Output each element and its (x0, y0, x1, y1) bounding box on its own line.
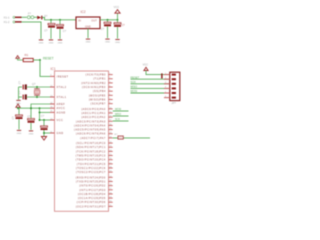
pin XTAL2 (50, 87, 55, 88)
svg-text:RESET: RESET (43, 56, 54, 60)
pin (SS)PB4 (109, 90, 113, 93)
pin (MISO)PB6 (109, 98, 113, 101)
svg-text:GND: GND (115, 42, 120, 44)
capacitor C8 (28, 119, 35, 121)
pin /RESET (50, 76, 55, 77)
svg-text:(INT2/AIN0)PB2: (INT2/AIN0)PB2 (81, 82, 106, 85)
wire IC2 out (100, 19, 118, 21)
ground C1 (49, 39, 53, 40)
pin (SCK)PB7 (109, 102, 113, 105)
pin (TDI/PCINT21)PC5 (109, 162, 113, 165)
capacitor C1 (50, 20, 52, 24)
pin (RXD/PCINT24)PD0 (109, 176, 113, 179)
svg-text:(TDI/PCINT21)PC5: (TDI/PCINT21)PC5 (77, 163, 106, 166)
wire XTAL2 row right (27, 86, 51, 88)
ground C8 (29, 130, 33, 131)
svg-text:(TXD/PCINT25)PD1: (TXD/PCINT25)PD1 (76, 180, 106, 183)
svg-text:(ADC3/PCINT3)PA3: (ADC3/PCINT3)PA3 (76, 120, 106, 123)
wire SCK stub (113, 120, 129, 122)
pin (ADC5/PCINT05)PA5 (109, 128, 113, 131)
svg-text:2: 2 (109, 77, 110, 79)
svg-text:(TDO/PCINT20)PC4: (TDO/PCINT20)PC4 (76, 159, 106, 162)
pin (MOSI)PB5 (109, 94, 113, 97)
svg-text:AVCC: AVCC (57, 107, 66, 110)
svg-text:GND: GND (39, 42, 44, 44)
pin (ADC0/PC0)PA0 (109, 107, 113, 110)
wire diode to IC2 (42, 18, 76, 20)
pin (INT0/PCI26)PD2 (109, 184, 113, 187)
svg-text:(ADC0/PC0)PA0: (ADC0/PC0)PA0 (81, 108, 106, 111)
pin (TMS/PCINT19)PC3 (109, 154, 113, 157)
svg-text:SCK: SCK (115, 118, 120, 121)
wire R1 to node (33, 59, 40, 61)
svg-text:R1: R1 (25, 53, 29, 57)
supply VCC at R1 (16, 56, 20, 59)
svg-text:GND: GND (49, 42, 54, 44)
svg-text:GND: GND (57, 132, 64, 135)
header pin 5 (172, 92, 176, 94)
wire MOSI stub (113, 110, 129, 112)
svg-text:JP?: JP? (172, 102, 177, 105)
pin (TCK/PCINT18)PC2 (109, 150, 113, 153)
svg-text:35: 35 (109, 128, 111, 130)
svg-text:(SDA/PCINT17)PC1: (SDA/PCINT17)PC1 (76, 146, 106, 149)
ground crystal caps (16, 100, 20, 101)
svg-text:16: 16 (109, 184, 111, 186)
wire VCC row (40, 119, 51, 121)
pin (TOSC1/PCI22)PC6 (109, 167, 113, 170)
wire caps join to ground (18, 87, 20, 100)
wire to /RESET pin (40, 60, 50, 76)
diode D1 (37, 16, 41, 20)
pin (OC1A/PCI29)PD5 (109, 197, 113, 200)
pin XTAL1 (50, 97, 55, 98)
svg-text:(TOSC1/PCI22)PC6: (TOSC1/PCI22)PC6 (76, 167, 106, 170)
junction AVCC (17, 107, 19, 109)
svg-text:(XCK/T0)PB0: (XCK/T0)PB0 (86, 74, 106, 77)
svg-text:15: 15 (109, 180, 111, 182)
svg-text:(ADC2/PC2)PA2: (ADC2/PC2)PA2 (81, 116, 106, 119)
svg-text:(OC1B/PCI28)PD4: (OC1B/PCI28)PD4 (78, 193, 106, 196)
svg-text:MOSI: MOSI (115, 108, 121, 111)
svg-text:XTAL2: XTAL2 (57, 86, 67, 89)
svg-text:(TMS/PCINT19)PC3: (TMS/PCINT19)PC3 (76, 155, 106, 158)
IC2 gnd stub (87, 29, 89, 38)
pin (ADC4/PCINT04)PA4 (109, 124, 113, 127)
svg-text:IN: IN (78, 19, 81, 23)
svg-text:37: 37 (109, 120, 111, 122)
svg-text:VCC: VCC (114, 5, 120, 9)
svg-text:26: 26 (109, 158, 111, 160)
pin (T1)PB1 (109, 77, 113, 80)
connector JP1 (170, 72, 180, 100)
solder jumper SJ1 (118, 136, 123, 139)
pin AGND (50, 112, 55, 113)
svg-text:29: 29 (109, 171, 111, 173)
svg-text:(TCK/PCINT18)PC2: (TCK/PCINT18)PC2 (76, 150, 106, 153)
wire AVCC row (18, 107, 50, 109)
ground C2 (58, 39, 62, 40)
wire AREF row (31, 104, 50, 118)
svg-text:22: 22 (109, 142, 111, 144)
svg-text:GND: GND (85, 24, 91, 28)
svg-text:17: 17 (109, 188, 111, 190)
svg-text:(OC2/PCINT31)PD7: (OC2/PCINT31)PD7 (76, 205, 106, 208)
svg-text:GND: GND (29, 133, 34, 135)
svg-text:GND: GND (17, 133, 22, 135)
pin VCC (50, 120, 55, 121)
pin (TXD/PCINT25)PD1 (109, 180, 113, 183)
svg-text:X1-1: X1-1 (4, 15, 10, 19)
wire MISO stub (113, 115, 129, 117)
capacitor C2 (59, 20, 61, 25)
header pin 4 (172, 87, 176, 89)
junction C4 (117, 19, 119, 21)
wire AGND row (39, 107, 41, 109)
supply VCC top (117, 13, 119, 20)
pin (SCL/PCINT16)PC0 (109, 142, 113, 145)
pin (INT1/PCI27)PD3 (109, 188, 113, 191)
pin (ADC2/PC2)PA2 (109, 116, 113, 119)
svg-text:VCC: VCC (57, 119, 64, 122)
svg-text:34: 34 (109, 132, 111, 134)
wire X1-1 to fuse (22, 16, 27, 18)
svg-text:(MISO)PB6: (MISO)PB6 (89, 98, 106, 101)
svg-text:3: 3 (109, 81, 110, 83)
svg-text:(ADC6/PCINT6)PA6: (ADC6/PCINT6)PA6 (76, 133, 106, 136)
pin (TDO/PCINT20)PC4 (109, 158, 113, 161)
pin (ADC6/PCINT6)PA6 (109, 132, 113, 135)
svg-text:(SS)PB4: (SS)PB4 (93, 90, 106, 93)
svg-text:18: 18 (109, 192, 111, 194)
svg-text:25: 25 (109, 154, 111, 156)
svg-text:1: 1 (109, 73, 110, 75)
svg-text:6: 6 (109, 94, 110, 96)
pin (OC2/PCINT31)PD7 (109, 205, 113, 208)
svg-text:(OC1A/PCI29)PD5: (OC1A/PCI29)PD5 (78, 197, 106, 200)
svg-text:38: 38 (109, 116, 111, 118)
svg-text:36: 36 (109, 124, 111, 126)
svg-text:21: 21 (109, 205, 111, 207)
wire XTAL1 row right (27, 96, 51, 98)
supply VCC mid (16, 104, 20, 107)
pin GND (50, 133, 55, 134)
pin (ADC3/PCINT3)PA3 (109, 120, 113, 123)
svg-text:(MOSI)PB5: (MOSI)PB5 (89, 94, 106, 97)
svg-text:MISO: MISO (115, 113, 121, 116)
pin AVCC (50, 108, 55, 109)
capacitor C9 (43, 120, 45, 126)
capacitor C4 (117, 20, 119, 23)
svg-text:(INT0/PCI26)PD2: (INT0/PCI26)PD2 (79, 185, 106, 188)
svg-text:14: 14 (109, 176, 111, 178)
svg-text:XTAL1: XTAL1 (57, 96, 67, 99)
ground C3 (105, 39, 109, 40)
svg-text:4: 4 (109, 85, 110, 87)
junction RESET (39, 59, 41, 61)
pin (XCK/T0)PB0 (109, 73, 113, 76)
svg-text:19: 19 (109, 197, 111, 199)
svg-text:AGND: AGND (57, 111, 66, 114)
svg-text:33: 33 (109, 136, 111, 138)
wire XTAL2 row left (19, 86, 23, 88)
svg-text:GND: GND (105, 42, 110, 44)
header pin 2 (172, 78, 176, 80)
junction C1 (50, 19, 52, 21)
wire XTAL1 row left (19, 96, 23, 98)
svg-text:(ADC1/PC1)PA1: (ADC1/PC1)PA1 (81, 112, 106, 115)
wire X1-2 to ground (22, 22, 42, 39)
junction C2 (59, 19, 61, 21)
header pin 3 (172, 83, 176, 85)
svg-text:OUT: OUT (91, 19, 97, 23)
pin (ICP/PCINT30)PD6 (109, 201, 113, 204)
capacitor C3 (107, 20, 109, 22)
wire PD stub long (113, 137, 150, 139)
svg-text:28: 28 (109, 166, 111, 168)
svg-text:(ADC5/PCINT05)PA5: (ADC5/PCINT05)PA5 (74, 129, 106, 132)
pin (ADC1/PC1)PA1 (109, 112, 113, 115)
svg-text:40: 40 (109, 107, 111, 109)
svg-text:(ICP/PCINT30)PD6: (ICP/PCINT30)PD6 (77, 201, 106, 204)
header pin 6 (172, 97, 176, 99)
svg-text:(T1)PB1: (T1)PB1 (93, 78, 106, 81)
ground C4 (115, 39, 119, 40)
pin (TOSC2/PCI23)PC7 (109, 171, 113, 174)
header pin 1 (172, 74, 176, 76)
svg-text:GND: GND (86, 42, 91, 44)
pin (ADC7/PCI7)PA7 (109, 136, 113, 139)
svg-text:5: 5 (109, 90, 110, 92)
svg-text:/RESET: /RESET (57, 75, 69, 78)
ground C5 (17, 130, 21, 131)
wire fuse to diode (34, 16, 37, 18)
capacitor C5 (18, 108, 20, 115)
svg-text:(ADC7/PCI7)PA7: (ADC7/PCI7)PA7 (80, 137, 106, 140)
svg-text:(SCK)PB7: (SCK)PB7 (91, 103, 106, 106)
svg-text:(TOSC2/PCI23)PC7: (TOSC2/PCI23)PC7 (76, 171, 106, 174)
svg-text:23: 23 (109, 146, 111, 148)
svg-text:39: 39 (109, 111, 111, 113)
svg-text:(RXD/PCINT24)PD0: (RXD/PCINT24)PD0 (76, 176, 106, 179)
svg-text:7: 7 (109, 98, 110, 100)
svg-text:VCC: VCC (143, 64, 148, 67)
svg-text:AREF: AREF (57, 103, 66, 106)
svg-text:(SCL/PCINT16)PC0: (SCL/PCINT16)PC0 (76, 142, 106, 145)
pin AREF (50, 104, 55, 105)
svg-text:(OC0/AIN1)PB3: (OC0/AIN1)PB3 (82, 86, 106, 89)
svg-text:8: 8 (109, 102, 110, 104)
svg-text:(INT1/PCI27)PD3: (INT1/PCI27)PD3 (79, 189, 106, 192)
svg-text:(ADC4/PCINT04)PA4: (ADC4/PCINT04)PA4 (74, 124, 106, 127)
svg-text:GND: GND (58, 42, 63, 44)
svg-text:27: 27 (109, 162, 111, 164)
ground triangle (41, 137, 46, 141)
svg-text:X1-2: X1-2 (4, 20, 10, 24)
svg-text:IC2: IC2 (81, 10, 86, 14)
junction C3 (107, 19, 109, 21)
pin (SDA/PCINT17)PC1 (109, 146, 113, 149)
pin1 polarity bar (161, 73, 162, 78)
ground X1-2 (39, 39, 43, 40)
svg-text:20: 20 (109, 201, 111, 203)
svg-text:24: 24 (109, 150, 111, 152)
pin (INT2/AIN0)PB2 (109, 81, 113, 84)
pin (OC1B/PCI28)PD4 (109, 193, 113, 196)
wire GND row (44, 132, 50, 134)
pin (OC0/AIN1)PB3 (109, 86, 113, 89)
